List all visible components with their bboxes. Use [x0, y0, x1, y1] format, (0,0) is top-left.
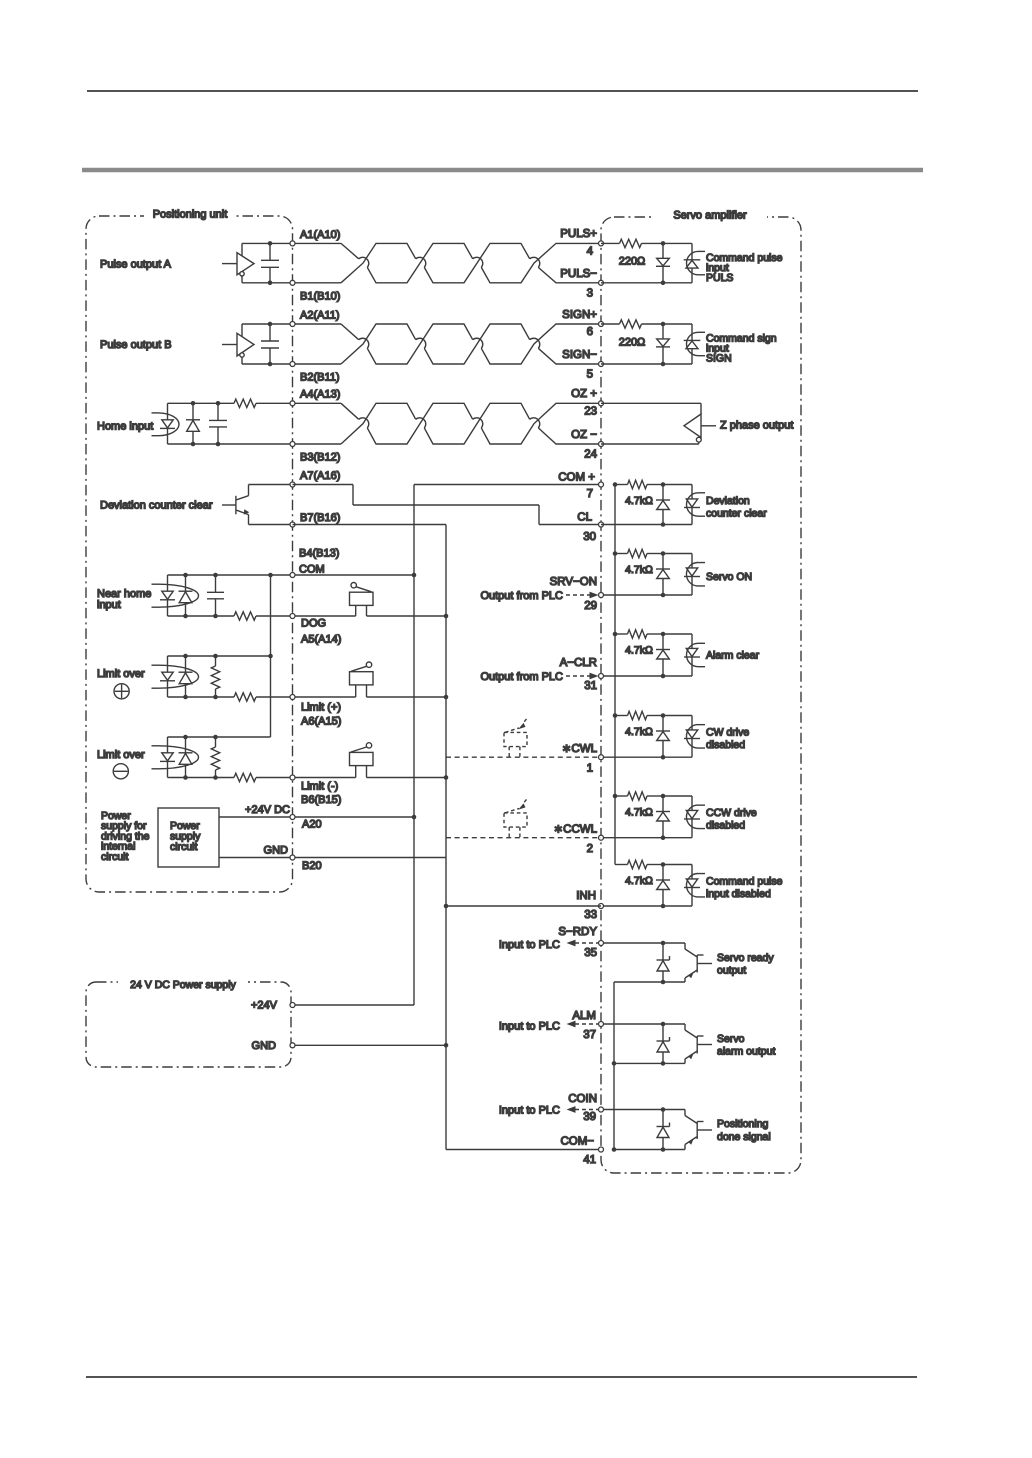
wire servo alarm bottom rail [614, 1062, 685, 1064]
label power supply for driving the internal circuit [101, 810, 150, 863]
svg-text:input disabled: input disabled [706, 888, 771, 900]
opto-coupler Deviation counter clear [684, 485, 705, 525]
node *CWL pin 1 [562, 743, 604, 775]
wire GND supply [293, 1044, 447, 1046]
label 4.7k (CW drive disabled) [625, 726, 653, 738]
node Limit(+) A6(A15) [290, 695, 341, 728]
label Near home input [97, 588, 151, 611]
CW drive disabled wiring [601, 711, 692, 759]
node A2(A11) [290, 309, 340, 326]
wire limit- top rail [168, 736, 271, 738]
capacitor (pulse output A) [261, 241, 279, 285]
node SIGN- pin 5 [562, 349, 603, 381]
svg-text:1: 1 [587, 762, 593, 774]
transistor servo ready output [601, 941, 712, 985]
svg-text:A4(A13): A4(A13) [300, 389, 340, 401]
node ALM pin 37 [572, 1010, 603, 1041]
wire limit+ top rail [168, 655, 271, 657]
svg-text:∗CWL: ∗CWL [562, 743, 598, 755]
svg-text:DOG: DOG [301, 617, 326, 629]
label Output from PLC (SRV-ON) [480, 590, 563, 602]
node OZ- pin 24 [571, 429, 603, 461]
label Input to PLC (ALM) [499, 1021, 560, 1033]
wire +24V DC A20 [219, 816, 414, 818]
capacitor (near home) [207, 573, 224, 619]
switch CWL (dashed) [504, 719, 527, 757]
node B4(B13) COM [290, 547, 339, 577]
buffer Pulse output B [222, 324, 254, 364]
node A1(A10) [290, 229, 340, 246]
twisted pair SIGN [293, 324, 602, 364]
svg-text:B2(B11): B2(B11) [300, 372, 340, 384]
twisted pair OZ [293, 403, 602, 444]
svg-text:INH: INH [576, 890, 596, 902]
svg-text:A2(A11): A2(A11) [300, 309, 340, 321]
node S-RDY pin 35 [558, 926, 603, 959]
svg-text:Limit (-): Limit (-) [301, 781, 338, 793]
svg-text:37: 37 [583, 1029, 596, 1041]
svg-text:alarm output: alarm output [717, 1046, 775, 1058]
svg-text:PULS+: PULS+ [560, 228, 597, 240]
node COM- pin 41 [560, 1136, 603, 1167]
diode clamp (SIGN) [656, 324, 670, 364]
wire A4 rail [168, 402, 293, 404]
node Limit(-) B6(B15) [290, 775, 341, 806]
svg-text:2: 2 [587, 843, 593, 855]
svg-text:41: 41 [583, 1154, 596, 1166]
wire +24V bus (COM+ to supply) [412, 485, 417, 1006]
svg-text:input: input [97, 599, 121, 611]
label Command pulse input PULS [706, 252, 783, 284]
label Command sign input SIGN [706, 333, 777, 365]
node B20 [264, 845, 322, 872]
node A20 [245, 804, 322, 830]
label Alarm clear [706, 650, 760, 662]
diode clamp (near home) [179, 573, 193, 619]
node B2(B11) [290, 362, 340, 384]
diode clamp (limit-) [179, 735, 193, 780]
wire B3 rail [168, 443, 293, 445]
node *CCWL pin 2 [554, 823, 604, 855]
svg-text:B6(B15): B6(B15) [301, 794, 341, 806]
wire input to PLC (COIN) [567, 1106, 600, 1113]
svg-text:SIGN+: SIGN+ [562, 309, 597, 321]
transistor deviation counter clear [222, 485, 249, 525]
diode clamp (CCW drive disabled) [656, 796, 670, 838]
wire servo output emitter bus [612, 982, 617, 1152]
node PULS- pin 3 [560, 268, 603, 300]
opto-coupler limit- LED [152, 737, 199, 778]
label Servo alarm output [717, 1033, 775, 1058]
node SIGN+ pin 6 [562, 309, 603, 338]
svg-text:Servo ready: Servo ready [717, 952, 774, 964]
svg-text:Pulse output A: Pulse output A [100, 258, 172, 270]
svg-text:COM: COM [299, 563, 325, 575]
twisted pair PULS [293, 243, 602, 282]
svg-text:COM−: COM− [560, 1136, 594, 1148]
svg-text:Deviation: Deviation [706, 495, 750, 507]
4.7k input CL wiring [601, 480, 692, 527]
node A4(A13) [290, 389, 340, 406]
svg-text:GND: GND [264, 845, 289, 857]
svg-text:disabled: disabled [706, 739, 745, 751]
transistor positioning done signal [601, 1107, 712, 1152]
svg-text:SIGN: SIGN [706, 353, 732, 365]
node INH pin 33 [576, 890, 603, 921]
label Servo ON [706, 571, 752, 583]
label Deviation counter clear [100, 500, 213, 512]
page header rule [87, 90, 918, 92]
node B7(B16) [290, 512, 340, 527]
svg-text:COIN: COIN [568, 1093, 597, 1105]
label 220 ohm (PULS) [619, 256, 646, 268]
Positioning unit enclosure [86, 216, 293, 892]
svg-text:Near home: Near home [97, 588, 151, 600]
24 V DC Power supply enclosure [86, 982, 291, 1067]
node A-CLR pin 31 [560, 657, 604, 692]
svg-text:Output from PLC: Output from PLC [480, 590, 563, 602]
svg-text:3: 3 [587, 288, 593, 300]
label Limit over - [97, 749, 145, 761]
node COIN pin 39 [568, 1093, 603, 1123]
label 220 ohm (SIGN) [619, 336, 646, 348]
svg-text:220Ω: 220Ω [619, 256, 646, 268]
wire COM- link [446, 1149, 601, 1151]
Command pulse input disabled wiring [601, 860, 692, 908]
label Servo ready output [717, 952, 774, 977]
svg-text:31: 31 [584, 680, 597, 692]
page footer rule [86, 1376, 917, 1378]
gray divider bar [82, 168, 923, 173]
svg-text:ALM: ALM [572, 1010, 596, 1022]
opto-coupler near home LED [152, 575, 199, 616]
label 4.7k (CCW drive disabled) [625, 806, 653, 818]
svg-text:Positioning unit: Positioning unit [153, 209, 228, 221]
node B3(B12) [290, 442, 340, 464]
diode clamp (CL) [656, 485, 670, 525]
svg-text:S−RDY: S−RDY [558, 926, 597, 938]
svg-text:CL: CL [577, 512, 592, 524]
svg-text:Positioning: Positioning [717, 1118, 769, 1130]
buffer Z phase output [601, 403, 716, 444]
Alarm clear wiring [601, 630, 692, 679]
wire COM+ feed [414, 484, 601, 486]
node CL pin 30 [577, 512, 603, 543]
svg-text:Input to PLC: Input to PLC [499, 939, 560, 951]
label Home input [97, 421, 153, 433]
svg-text:4.7kΩ: 4.7kΩ [625, 875, 653, 887]
svg-text:Z phase output: Z phase output [720, 420, 793, 432]
wire +24V supply [293, 1004, 415, 1006]
label Deviation counter clear (amp) [706, 495, 767, 520]
svg-text:CW drive: CW drive [706, 727, 749, 739]
svg-text:A20: A20 [302, 819, 322, 831]
node GND [252, 1040, 295, 1052]
wire B7 rail [249, 524, 293, 526]
node OZ+ pin 23 [571, 388, 603, 417]
node DOG A5(A14) [290, 614, 341, 646]
wire positioning done bottom rail [614, 1149, 685, 1151]
wire B7 to ground bus [293, 524, 447, 526]
wire limit+ rail [168, 696, 447, 698]
wire GND B20 [219, 857, 446, 859]
label Pulse output A [100, 258, 172, 270]
svg-text:39: 39 [583, 1111, 596, 1123]
svg-text:4.7kΩ: 4.7kΩ [625, 726, 653, 738]
svg-text:Deviation counter clear: Deviation counter clear [100, 500, 213, 512]
Servo ON wiring [601, 549, 692, 597]
Servo amplifier enclosure [601, 217, 801, 1173]
svg-text:done signal: done signal [717, 1131, 771, 1143]
label Z phase output [720, 420, 793, 432]
svg-text:B7(B16): B7(B16) [300, 512, 340, 524]
svg-text:OZ −: OZ − [571, 429, 597, 441]
opto-coupler CCW drive disabled [684, 796, 705, 838]
svg-text:Servo: Servo [717, 1033, 745, 1045]
svg-text:circuit: circuit [101, 851, 129, 863]
opto-coupler Command pulse input disabled [684, 865, 705, 907]
svg-text:Limit (+): Limit (+) [301, 701, 341, 713]
opto-coupler CW drive disabled [684, 716, 705, 758]
resistor (limit+) [234, 693, 256, 701]
wire CCWL dashed [446, 837, 601, 839]
diode clamp (PULS) [656, 243, 670, 282]
wire input to PLC (ALM) [567, 1021, 600, 1028]
wire servo ready bottom rail [614, 981, 685, 983]
symbol minus [113, 764, 128, 779]
220 ohm input SIGN wiring [601, 320, 692, 367]
svg-text:Servo amplifier: Servo amplifier [673, 210, 747, 222]
opto-coupler Servo ON [684, 554, 705, 596]
svg-text:PULS: PULS [706, 272, 733, 284]
svg-text:SIGN−: SIGN− [562, 349, 597, 361]
resistor pull (limit+) [211, 654, 219, 700]
svg-text:35: 35 [584, 947, 597, 959]
wire DOG rail [168, 615, 447, 617]
wire output from PLC (A-CLR) [566, 673, 599, 680]
wire A7 rail [249, 484, 293, 486]
diode clamp (Command pulse input disabled) [656, 865, 670, 907]
svg-text:PULS−: PULS− [560, 268, 597, 280]
switch CCWL (dashed) [504, 799, 527, 837]
resistor (home input) [234, 399, 256, 407]
node PULS+ pin 4 [560, 228, 603, 257]
symbol plus [114, 684, 129, 699]
svg-text:Limit over: Limit over [97, 668, 145, 680]
resistor (near home) [234, 612, 256, 620]
label Pulse output B [100, 339, 172, 351]
svg-text:6: 6 [587, 326, 593, 338]
label Command pulse input disabled [706, 875, 783, 900]
label Output from PLC (A-CLR) [480, 671, 563, 683]
opto-coupler home input LED [152, 403, 180, 444]
svg-text:24: 24 [584, 449, 597, 461]
svg-text:Input to PLC: Input to PLC [499, 1021, 560, 1033]
wire A1 rail [242, 242, 293, 244]
node A7(A16) [290, 470, 340, 487]
svg-text:B3(B12): B3(B12) [300, 452, 340, 464]
switch DOG [350, 583, 374, 617]
svg-text:33: 33 [584, 909, 597, 921]
svg-text:A7(A16): A7(A16) [300, 470, 340, 482]
label CCW drive disabled [706, 807, 757, 832]
opto-coupler Alarm clear [684, 634, 705, 676]
svg-text:A5(A14): A5(A14) [301, 633, 341, 645]
switch limit- [350, 743, 374, 778]
diode clamp (Servo ON) [656, 554, 670, 596]
svg-text:4.7kΩ: 4.7kΩ [625, 806, 653, 818]
switch limit+ [350, 662, 374, 697]
svg-text:output: output [717, 965, 746, 977]
wire B2 rail [242, 363, 293, 365]
diode clamp (home input) [186, 401, 200, 446]
label 4.7k (Servo ON) [625, 564, 653, 576]
svg-text:Pulse output B: Pulse output B [100, 339, 172, 351]
diode clamp (Alarm clear) [656, 634, 670, 676]
transistor servo alarm output [601, 1022, 712, 1066]
node B1(B10) [290, 280, 340, 302]
svg-text:7: 7 [587, 488, 593, 500]
svg-text:A6(A15): A6(A15) [301, 715, 341, 727]
svg-text:Servo ON: Servo ON [706, 571, 752, 583]
node COM+ pin 7 [558, 471, 603, 499]
svg-text:∗CCWL: ∗CCWL [554, 823, 598, 835]
power supply circuit box [158, 808, 219, 867]
diode clamp (limit+) [179, 654, 193, 700]
svg-text:30: 30 [583, 531, 596, 543]
svg-text:+24V: +24V [251, 1000, 278, 1012]
svg-text:4: 4 [587, 245, 594, 257]
svg-text:SRV−ON: SRV−ON [550, 576, 597, 588]
wire A7 to CL step [293, 485, 602, 525]
opto-coupler Command sign input SIGN [684, 324, 705, 364]
svg-text:23: 23 [584, 405, 597, 417]
CCW drive disabled wiring [601, 792, 692, 840]
label 4.7k (Command pulse input disabled) [625, 875, 653, 887]
node +24V [251, 1000, 295, 1012]
diode clamp (CW drive disabled) [656, 716, 670, 758]
svg-text:disabled: disabled [706, 820, 745, 832]
svg-text:A−CLR: A−CLR [560, 657, 597, 669]
svg-text:5: 5 [587, 369, 593, 381]
svg-text:24 V DC Power supply: 24 V DC Power supply [130, 979, 236, 991]
wire limit- rail [168, 777, 447, 779]
svg-text:CCW drive: CCW drive [706, 807, 757, 819]
wire COM rail [168, 574, 415, 576]
label Limit over + [97, 668, 145, 680]
resistor pull (limit-) [211, 735, 219, 780]
svg-text:4.7kΩ: 4.7kΩ [625, 564, 653, 576]
label 4.7k (CL) [625, 495, 653, 507]
wire ground bus (B7/COM- chain) [444, 525, 449, 1150]
svg-text:Output from PLC: Output from PLC [480, 671, 563, 683]
svg-text:A1(A10): A1(A10) [300, 229, 340, 241]
label 4.7k (Alarm clear) [625, 644, 653, 656]
resistor (limit-) [234, 773, 256, 781]
svg-text:B1(B10): B1(B10) [300, 290, 340, 302]
wire B1 rail [242, 282, 293, 284]
wire output from PLC (SRV-ON) [566, 592, 599, 599]
svg-text:B4(B13): B4(B13) [299, 547, 339, 559]
wire input-opto supply bus [268, 573, 273, 737]
svg-text:+24V DC: +24V DC [245, 804, 290, 816]
svg-text:Command pulse: Command pulse [706, 875, 783, 887]
wire input to PLC (S-RDY) [567, 940, 600, 947]
svg-text:29: 29 [584, 600, 597, 612]
wire INH link [446, 905, 601, 907]
svg-text:Limit over: Limit over [97, 749, 145, 761]
capacitor (home input) [209, 401, 227, 446]
svg-text:OZ +: OZ + [571, 388, 597, 400]
svg-text:counter clear: counter clear [706, 508, 767, 520]
svg-text:4.7kΩ: 4.7kΩ [625, 495, 653, 507]
label CW drive disabled [706, 727, 749, 752]
svg-text:220Ω: 220Ω [619, 336, 646, 348]
label Positioning done signal [717, 1118, 771, 1143]
wire CWL dashed [446, 756, 601, 758]
buffer Pulse output A [222, 243, 254, 282]
opto-coupler limit+ LED [152, 656, 199, 697]
svg-text:Input to PLC: Input to PLC [499, 1105, 560, 1117]
svg-text:COM +: COM + [558, 471, 595, 483]
svg-text:4.7kΩ: 4.7kΩ [625, 644, 653, 656]
svg-text:circuit: circuit [170, 841, 198, 853]
svg-text:Home input: Home input [97, 421, 153, 433]
wire A2 rail [242, 323, 293, 325]
label Input to PLC (S-RDY) [499, 939, 560, 951]
label Input to PLC (COIN) [499, 1105, 560, 1117]
opto-coupler Command pulse input PULS [684, 243, 705, 282]
node SRV-ON pin 29 [550, 576, 604, 612]
wire servo 4.7k supply bus [613, 482, 618, 864]
svg-text:GND: GND [252, 1040, 277, 1052]
svg-text:B20: B20 [302, 860, 322, 872]
220 ohm input PULS wiring [601, 239, 692, 285]
capacitor (pulse output B) [261, 322, 279, 367]
svg-text:Alarm clear: Alarm clear [706, 650, 760, 662]
